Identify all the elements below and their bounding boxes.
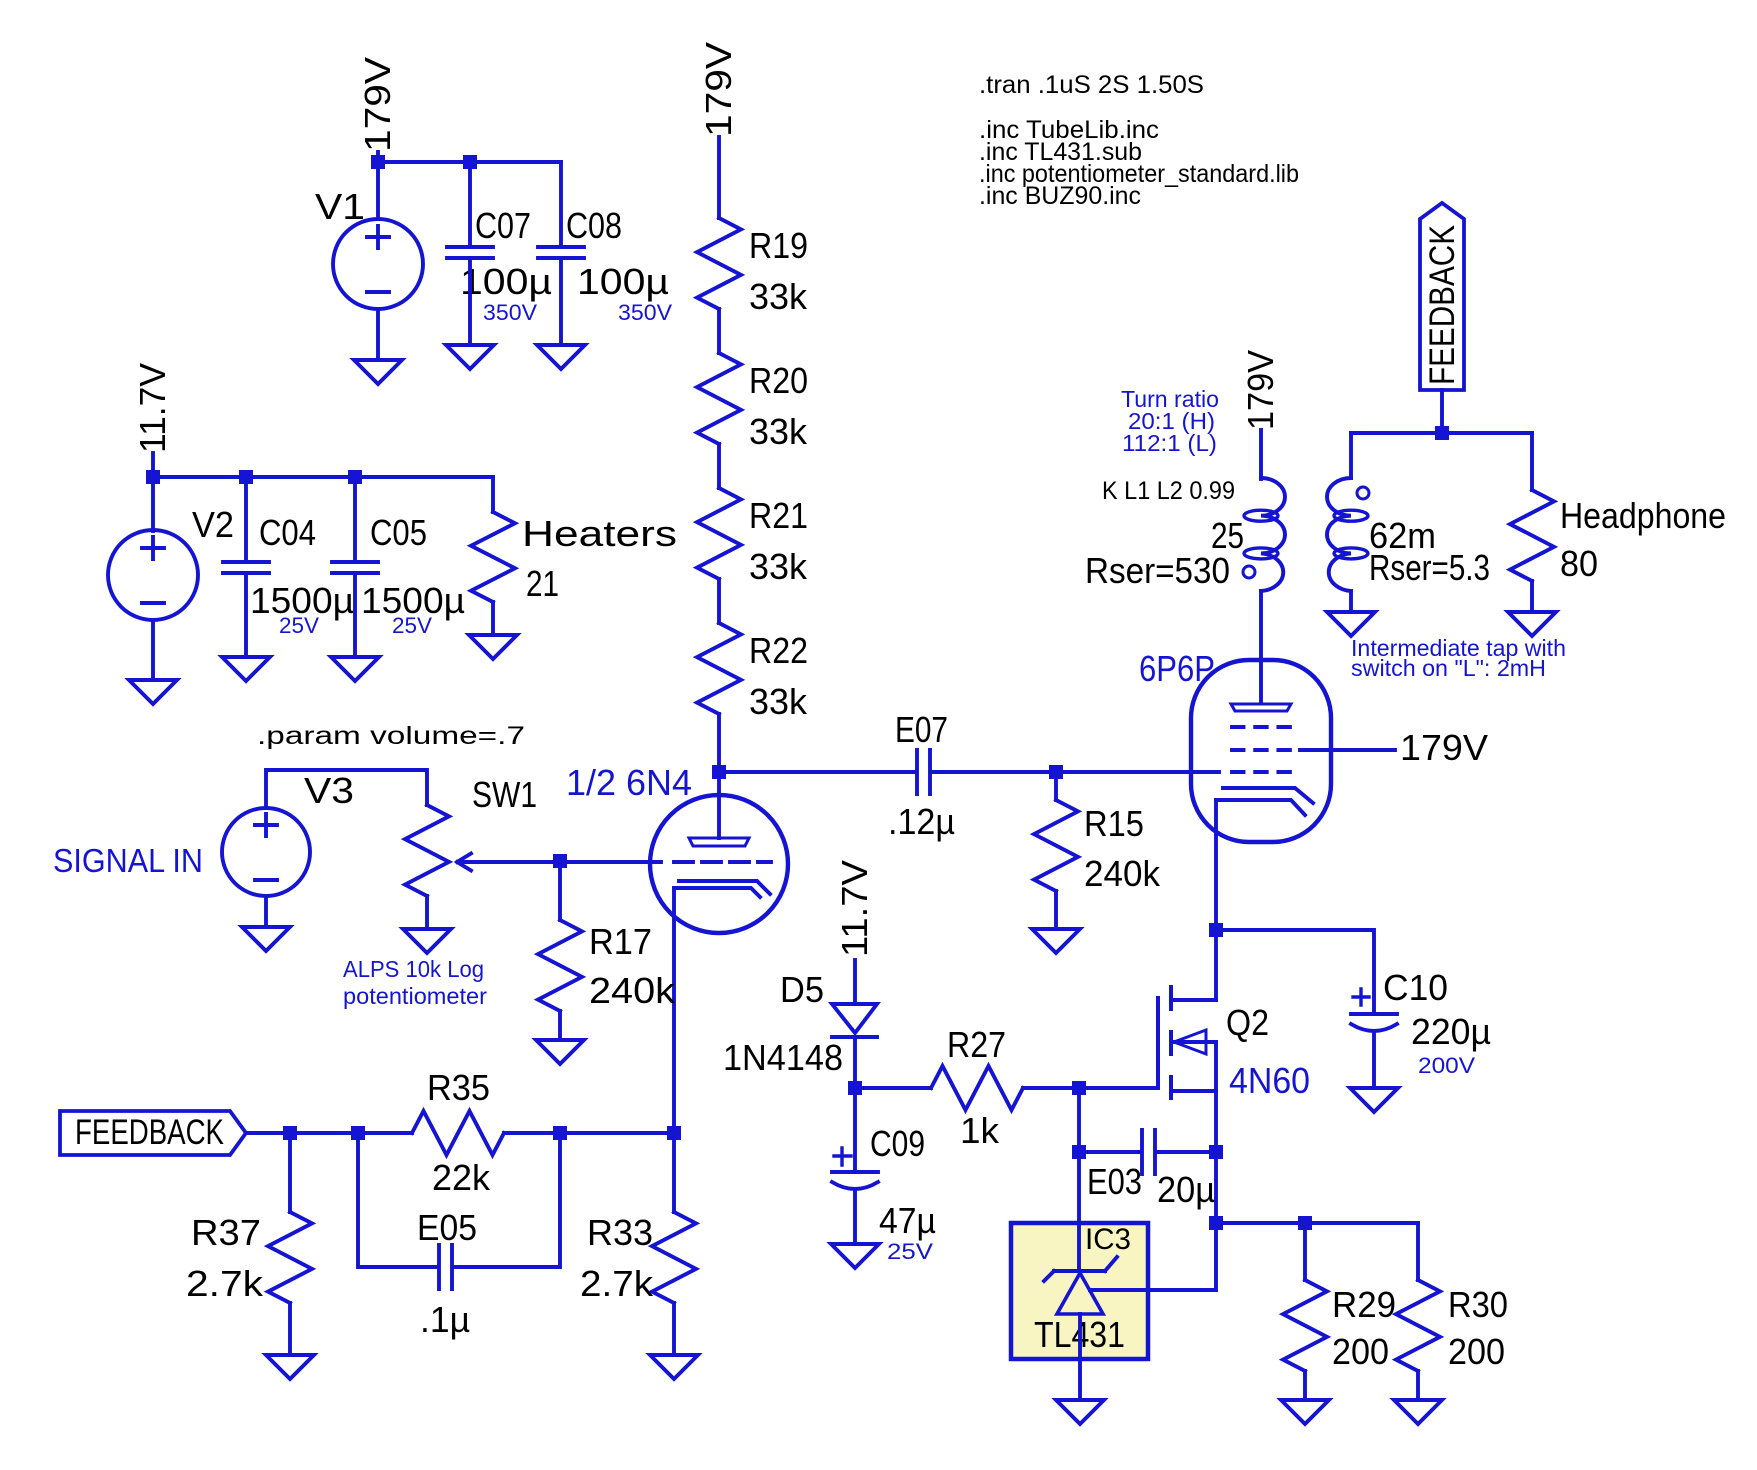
svg-text:E05: E05 xyxy=(417,1207,477,1248)
wire xyxy=(468,162,472,247)
wire (grid lead) xyxy=(560,860,661,864)
wire xyxy=(717,309,721,353)
junction xyxy=(348,470,362,484)
ground xyxy=(536,1040,584,1064)
wire xyxy=(855,1086,931,1090)
wire xyxy=(1054,891,1058,929)
svg-text:21: 21 xyxy=(526,563,559,604)
wire xyxy=(719,770,915,774)
svg-text:220µ: 220µ xyxy=(1411,1011,1491,1052)
ground xyxy=(1350,1088,1398,1112)
junction (source node) xyxy=(1209,1216,1223,1230)
wire xyxy=(559,258,563,345)
wire xyxy=(491,477,495,512)
wire (source) xyxy=(1214,1042,1218,1223)
junction xyxy=(146,470,160,484)
wire xyxy=(151,453,155,477)
svg-text:D5: D5 xyxy=(780,969,824,1010)
wire xyxy=(1157,1150,1216,1154)
resistor R35 22k xyxy=(412,1111,504,1155)
wire xyxy=(425,896,429,929)
wire xyxy=(264,896,268,927)
svg-text:25V: 25V xyxy=(392,613,432,638)
wire (screen to 179V) xyxy=(1300,748,1395,752)
resistor R30 200 xyxy=(1396,1280,1440,1371)
svg-text:33k: 33k xyxy=(749,546,808,587)
svg-text:1k: 1k xyxy=(960,1110,1000,1151)
wire xyxy=(558,1011,562,1040)
wire xyxy=(932,770,1056,774)
wire xyxy=(266,770,427,808)
svg-text:Rser=530: Rser=530 xyxy=(1085,550,1230,591)
svg-text:C09: C09 xyxy=(870,1123,925,1164)
wire xyxy=(153,475,493,479)
svg-text:R15: R15 xyxy=(1084,803,1144,844)
svg-text:IC3: IC3 xyxy=(1085,1223,1131,1256)
resistor R19 33k xyxy=(697,218,741,309)
ground xyxy=(1508,612,1556,636)
svg-text:.12µ: .12µ xyxy=(888,801,955,842)
svg-text:R21: R21 xyxy=(749,495,808,536)
svg-text:33k: 33k xyxy=(749,411,808,452)
svg-text:100µ: 100µ xyxy=(460,261,552,302)
wire xyxy=(1416,1223,1420,1280)
svg-text:potentiometer: potentiometer xyxy=(343,983,487,1009)
svg-text:FEEDBACK: FEEDBACK xyxy=(75,1113,224,1152)
svg-text:Headphone: Headphone xyxy=(1560,495,1726,536)
resistor R33 2.7k xyxy=(652,1212,696,1303)
svg-text:200: 200 xyxy=(1332,1331,1389,1372)
wire xyxy=(1349,591,1353,612)
wire xyxy=(358,1133,437,1267)
ground xyxy=(354,360,402,384)
ground xyxy=(1281,1400,1329,1424)
wire xyxy=(1303,1371,1307,1400)
svg-text:100µ: 100µ xyxy=(577,261,669,302)
svg-text:47µ: 47µ xyxy=(879,1200,936,1241)
wire xyxy=(853,1037,857,1088)
ground xyxy=(469,635,517,659)
wire xyxy=(244,477,248,562)
svg-text:C07: C07 xyxy=(475,205,531,246)
svg-text:179V: 179V xyxy=(1240,350,1281,430)
svg-text:R20: R20 xyxy=(749,360,808,401)
svg-text:V3: V3 xyxy=(304,770,354,811)
svg-text:R30: R30 xyxy=(1448,1284,1508,1325)
svg-text:11.7V: 11.7V xyxy=(834,860,875,957)
svg-text:2.7k: 2.7k xyxy=(186,1263,264,1304)
wire xyxy=(246,1131,412,1135)
ground xyxy=(129,680,177,704)
flag FEEDBACK (input) xyxy=(60,1111,246,1155)
junction xyxy=(667,1126,681,1140)
svg-text:25V: 25V xyxy=(887,1239,933,1264)
svg-text:R37: R37 xyxy=(191,1212,261,1253)
svg-text:SIGNAL IN: SIGNAL IN xyxy=(53,842,203,879)
wire xyxy=(1077,1088,1081,1152)
wire xyxy=(1440,390,1444,433)
wire xyxy=(1054,772,1058,800)
ground xyxy=(650,1355,698,1379)
svg-text:.tran .1uS 2S 1.50S: .tran .1uS 2S 1.50S xyxy=(979,71,1204,99)
svg-text:Rser=5.3: Rser=5.3 xyxy=(1369,547,1490,588)
wire xyxy=(244,573,248,657)
wire xyxy=(288,1303,292,1355)
junction (gate node) xyxy=(1072,1081,1086,1095)
junction xyxy=(1209,1145,1223,1159)
wire xyxy=(853,1190,857,1244)
wire xyxy=(558,861,562,920)
ground xyxy=(242,927,290,951)
svg-text:2.7k: 2.7k xyxy=(580,1263,654,1304)
wire xyxy=(853,960,857,1004)
resistor R29 200 xyxy=(1283,1280,1327,1371)
ground xyxy=(266,1355,314,1379)
svg-text:Q2: Q2 xyxy=(1226,1002,1269,1043)
triode U1 grid xyxy=(674,860,771,864)
svg-text:R27: R27 xyxy=(947,1024,1006,1065)
svg-text:112:1 (L): 112:1 (L) xyxy=(1122,430,1217,456)
wire xyxy=(504,1131,674,1135)
pentode screen grids xyxy=(1232,727,1290,772)
wire xyxy=(717,579,721,623)
wire xyxy=(376,309,380,360)
junction (plate node) xyxy=(712,765,726,779)
svg-text:C10: C10 xyxy=(1383,967,1448,1008)
shunt regulator IC3 TL431 xyxy=(1011,1223,1148,1359)
wire xyxy=(1023,1086,1158,1090)
wire (cathode lead) xyxy=(672,888,676,1133)
junction xyxy=(463,155,477,169)
junction xyxy=(239,470,253,484)
svg-text:179V: 179V xyxy=(698,42,739,137)
svg-text:4N60: 4N60 xyxy=(1229,1060,1310,1101)
svg-text:R17: R17 xyxy=(589,921,652,962)
resistor R22 33k xyxy=(697,623,741,714)
svg-text:R22: R22 xyxy=(749,630,808,671)
junction xyxy=(1072,1145,1086,1159)
ground xyxy=(1327,612,1375,636)
resistor R17 240k xyxy=(538,920,582,1011)
svg-text:80: 80 xyxy=(1560,543,1598,584)
svg-text:200V: 200V xyxy=(1418,1053,1475,1078)
junction xyxy=(553,1126,567,1140)
triode U1 plate xyxy=(717,772,721,838)
wire xyxy=(376,152,380,219)
svg-text:FEEDBACK: FEEDBACK xyxy=(1423,225,1462,385)
svg-text:R35: R35 xyxy=(427,1067,490,1108)
wiper arrow xyxy=(459,860,560,864)
wire xyxy=(1216,930,1374,1014)
wire xyxy=(151,477,155,531)
svg-text:SW1: SW1 xyxy=(472,774,537,815)
ground xyxy=(403,929,451,953)
wire xyxy=(1530,581,1534,612)
junction (6P6P grid node) xyxy=(1049,765,1063,779)
svg-text:33k: 33k xyxy=(749,681,808,722)
svg-text:11.7V: 11.7V xyxy=(132,363,173,453)
junction xyxy=(1298,1216,1312,1230)
wire xyxy=(559,162,563,247)
wire xyxy=(672,1303,676,1355)
svg-text:C08: C08 xyxy=(566,205,622,246)
svg-text:ALPS 10k Log: ALPS 10k Log xyxy=(343,956,484,982)
ground xyxy=(1394,1400,1442,1424)
svg-text:C05: C05 xyxy=(370,512,427,553)
svg-text:1/2 6N4: 1/2 6N4 xyxy=(566,762,692,803)
inductor L2 secondary 62m Rser=5.3 xyxy=(1327,478,1351,591)
wire xyxy=(288,1133,292,1212)
svg-text:E03: E03 xyxy=(1087,1161,1142,1202)
junction xyxy=(848,1081,862,1095)
svg-text:K L1 L2 0.99: K L1 L2 0.99 xyxy=(1102,477,1235,505)
wire xyxy=(1372,1032,1376,1088)
svg-text:22k: 22k xyxy=(432,1157,491,1198)
svg-text:240k: 240k xyxy=(1084,853,1161,894)
resistor Heaters 21 xyxy=(471,512,515,602)
svg-text:R19: R19 xyxy=(749,225,808,266)
svg-text:Heaters: Heaters xyxy=(522,513,677,554)
wire xyxy=(353,477,357,562)
svg-text:.inc BUZ90.inc: .inc BUZ90.inc xyxy=(979,182,1141,210)
wire xyxy=(1056,770,1219,774)
junction xyxy=(371,155,385,169)
ground xyxy=(831,1244,879,1268)
resistor Headphone 80 xyxy=(1510,490,1554,581)
wire xyxy=(717,137,721,218)
wire xyxy=(672,1133,676,1212)
svg-text:33k: 33k xyxy=(749,276,808,317)
ground xyxy=(331,657,379,681)
wire xyxy=(353,573,357,657)
wire xyxy=(454,1133,560,1267)
wire xyxy=(1259,430,1263,479)
svg-text:240k: 240k xyxy=(589,970,676,1011)
pentode plate xyxy=(1259,591,1263,702)
wire xyxy=(853,1088,857,1172)
ground xyxy=(1056,1400,1104,1424)
svg-text:200: 200 xyxy=(1448,1331,1505,1372)
wire xyxy=(1351,431,1532,435)
resistor R20 33k xyxy=(697,353,741,444)
wire xyxy=(1530,433,1534,490)
pentode cathode xyxy=(1223,788,1313,803)
wire xyxy=(1079,1150,1140,1154)
svg-text:E07: E07 xyxy=(895,709,948,750)
resistor R21 33k xyxy=(697,488,741,579)
wire xyxy=(717,444,721,488)
wire xyxy=(717,714,721,772)
junction xyxy=(283,1126,297,1140)
flag FEEDBACK (output) xyxy=(1420,203,1464,390)
resistor R37 2.7k xyxy=(268,1212,312,1303)
svg-text:1N4148: 1N4148 xyxy=(723,1037,843,1078)
resistor R15 240k xyxy=(1034,800,1078,891)
ground xyxy=(446,345,494,369)
pentode envelope xyxy=(1191,660,1331,842)
wire xyxy=(468,258,472,345)
svg-text:179V: 179V xyxy=(357,57,398,152)
svg-text:R33: R33 xyxy=(587,1212,653,1253)
svg-text:C04: C04 xyxy=(259,512,316,553)
svg-text:20µ: 20µ xyxy=(1157,1169,1215,1210)
junction xyxy=(351,1126,365,1140)
svg-text:179V: 179V xyxy=(1400,727,1488,768)
wire (drain) xyxy=(1214,930,1218,1000)
svg-text:switch on "L": 2mH: switch on "L": 2mH xyxy=(1351,655,1546,681)
ground xyxy=(1032,929,1080,953)
wire xyxy=(1303,1223,1307,1280)
svg-text:V2: V2 xyxy=(192,504,234,545)
junction xyxy=(1435,426,1449,440)
wire xyxy=(1216,1221,1418,1225)
ground xyxy=(537,345,585,369)
svg-text:R29: R29 xyxy=(1332,1284,1396,1325)
junction (cathode node) xyxy=(1209,923,1223,937)
ground xyxy=(222,657,270,681)
triode U1 envelope xyxy=(650,795,788,933)
svg-text:350V: 350V xyxy=(618,300,672,325)
wire (cathode lead) xyxy=(1214,800,1218,930)
triode U1 cathode xyxy=(679,881,770,894)
junction (grid/R17 node) xyxy=(553,854,567,868)
svg-text:.param volume=.7: .param volume=.7 xyxy=(257,722,525,750)
wire xyxy=(491,602,495,635)
svg-text:.1µ: .1µ xyxy=(420,1299,470,1340)
svg-text:25V: 25V xyxy=(279,613,319,638)
wire xyxy=(1416,1371,1420,1400)
svg-text:350V: 350V xyxy=(483,300,537,325)
wire xyxy=(378,160,561,164)
wire xyxy=(1349,433,1353,478)
wire xyxy=(151,620,155,680)
svg-text:V1: V1 xyxy=(315,186,365,227)
resistor R27 1k xyxy=(931,1066,1023,1110)
inductor L1 primary 25 Rser=530 xyxy=(1261,478,1285,591)
